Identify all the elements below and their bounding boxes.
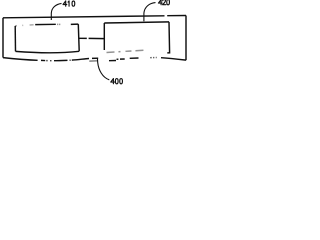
outer box 400: right edge [185, 16, 187, 61]
leader 400 [97, 58, 109, 80]
label 420 [158, 0, 169, 5]
leader 410 [51, 3, 61, 20]
left inner rect 410: left edge [14, 26, 16, 51]
label 410 [63, 1, 75, 6]
left inner rect 410: top edge (broken scan line) [15, 25, 17, 28]
right inner rect 420: right edge [167, 22, 169, 53]
right inner rect 420: left edge [103, 23, 105, 50]
right inner rect 420: top edge [104, 22, 169, 23]
right inner rect 420: bottom edge (faint broken) [107, 50, 145, 52]
leader 420 [144, 3, 156, 22]
connector line between rects [79, 37, 104, 39]
outer box 400: bottom edge (broken dash-dot scan) [3, 58, 38, 61]
left inner rect 410: right edge [77, 24, 80, 51]
outer box 400: top edge [3, 16, 186, 18]
left inner rect 410: bottom edge (bowed) [16, 51, 80, 53]
label 400 [111, 79, 123, 84]
outer box 400: left edge [2, 18, 4, 58]
